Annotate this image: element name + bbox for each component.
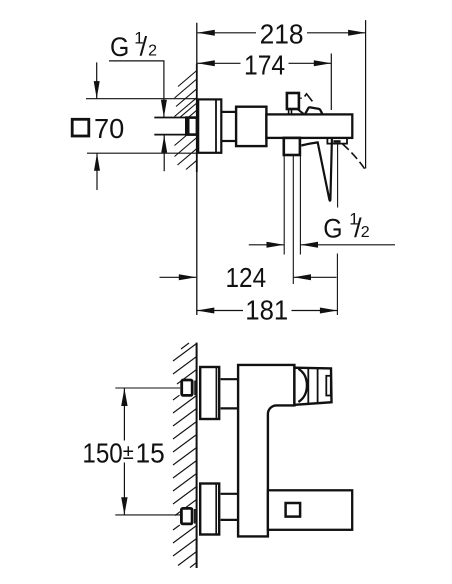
label square 70 [72,119,89,136]
extension line for 174 (right) [330,54,332,111]
wall face line (front view) [196,343,198,568]
extension lines from shower outlet [283,155,285,255]
lower union nut (front view) [181,508,192,524]
dimension 181 [197,310,243,312]
spout (front view) [268,490,352,530]
lower connection stubs [221,493,238,495]
dimension 124 [160,276,197,278]
main horizontal body (side view) [266,114,352,137]
svg-text:150: 150 [82,438,122,469]
dimension 174 [197,62,331,64]
svg-text:2: 2 [148,43,157,60]
label G 1/2 (top left) [110,28,157,62]
supply pipe through wall (side view) [154,117,187,119]
svg-text:G: G [110,32,129,62]
svg-text:2: 2 [361,224,370,241]
lower escutcheon (front view) [200,484,219,535]
svg-text:70: 70 [94,113,124,144]
upper escutcheon (front view) [200,367,219,419]
lever hump on body top [305,107,322,114]
union pipe between escutcheon and body [221,111,236,113]
pipe thread block in wall [186,118,197,135]
wall hatching (front view) [173,343,197,568]
dimension G 1/2 (bottom outlet) [249,244,284,246]
wall face line (side view) with extension to dimensions [196,23,198,315]
handle (front view) [294,368,331,405]
svg-text:±: ± [123,441,134,464]
arrows of square-70 dimension [96,62,98,98]
dimension 150±15 [123,388,125,440]
dimension square 70 : extension lines [86,98,197,100]
mixer body (front view) [238,365,294,537]
lower arrow of G 1/2 thread callout [163,135,165,171]
svg-text:124: 124 [226,262,267,293]
svg-text:218: 218 [260,19,304,50]
aerator / spout outlet [327,139,347,144]
upper union nut (front view) [182,380,193,395]
svg-text:/: / [140,32,148,62]
wall hatching (side view, top) [175,71,197,170]
extension line from aerator down to 181 [337,144,339,208]
lever handle (side view) [301,139,332,201]
spray direction dashed line [343,144,366,170]
svg-text:181: 181 [245,294,288,325]
movement arc near stem (dash) [300,97,302,99]
svg-text:15: 15 [136,438,165,469]
shower outlet block below body [284,138,300,155]
rear body block (side view) [236,107,266,146]
dimension 218 [197,32,365,34]
extension lines for 150±15 [115,387,180,389]
cartridge stem on body top [287,93,299,109]
upper connection stubs [221,378,238,380]
leader line from G 1/2 to pipe [109,61,164,117]
extension line for 218 (right) [365,20,367,168]
svg-text:G: G [323,213,342,243]
escutcheon (side view) [198,99,221,152]
label G 1/2 (bottom) [323,209,370,243]
svg-text:174: 174 [244,49,285,80]
